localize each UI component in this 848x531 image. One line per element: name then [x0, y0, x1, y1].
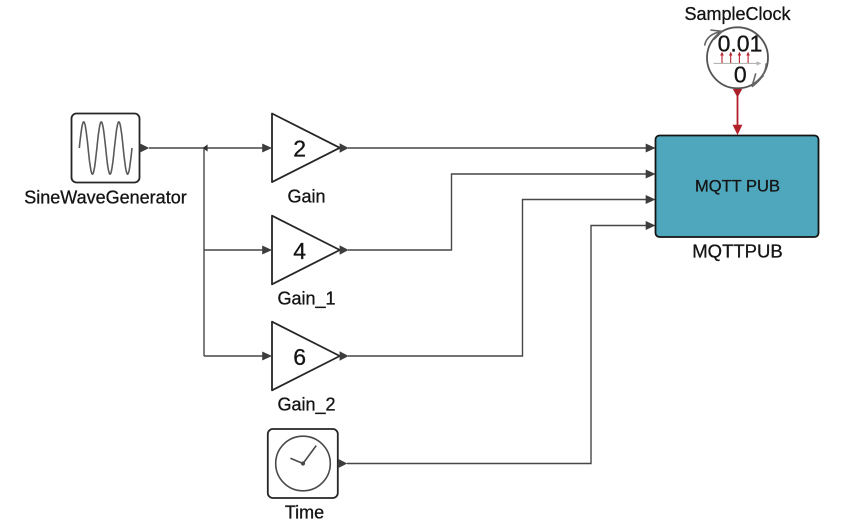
wire Gain output to MQTT PUB input 1 — [348, 147, 646, 149]
SampleClock red stems — [722, 55, 748, 63]
output port of Time — [338, 459, 347, 468]
arrowhead into MQTT PUB port 3 — [646, 195, 656, 204]
arrowhead into Gain_2 — [262, 352, 272, 361]
output port of Gain_1 — [340, 245, 349, 254]
gain Gain — [272, 114, 340, 183]
wire Gain_1 output to MQTT PUB input 2 — [348, 174, 646, 250]
SampleClock circle — [707, 27, 768, 88]
wire junction to Gain input — [204, 147, 263, 149]
wire red sample-time from SampleClock to MQTT PUB — [737, 95, 739, 126]
svg-text:MQTT PUB: MQTT PUB — [695, 178, 780, 196]
red arrow start triangle below SampleClock — [733, 89, 742, 98]
svg-text:4: 4 — [293, 238, 306, 264]
svg-text:0.01: 0.01 — [718, 31, 763, 57]
arrowhead into Gain_1 — [262, 246, 272, 255]
svg-text:SampleClock: SampleClock — [684, 4, 791, 24]
block Time (clock) — [268, 429, 338, 498]
output port of SineWaveGenerator — [140, 143, 150, 152]
node junction at branch point — [203, 144, 208, 151]
svg-text:SineWaveGenerator: SineWaveGenerator — [24, 187, 186, 207]
output port of Gain — [340, 143, 349, 152]
arrowhead into MQTT PUB port 4 — [646, 221, 656, 230]
svg-text:Time: Time — [285, 503, 324, 523]
wire vertical branch from junction down — [203, 148, 205, 356]
wire branch to Gain_1 input — [204, 249, 263, 251]
svg-text:6: 6 — [293, 344, 306, 370]
svg-text:Gain_2: Gain_2 — [277, 394, 335, 415]
svg-text:Gain: Gain — [287, 187, 325, 207]
arrowhead into Gain — [262, 144, 272, 153]
SampleClock rotation arrow top-left — [705, 30, 723, 46]
svg-text:2: 2 — [293, 136, 306, 162]
wire branch to Gain_2 input — [204, 355, 263, 357]
gain Gain_1 — [272, 216, 340, 285]
output port of Gain_2 — [340, 351, 349, 360]
wire Gain_2 output to MQTT PUB input 3 — [348, 200, 646, 357]
arrowhead into MQTT PUB port 1 — [646, 144, 656, 153]
SampleClock rotation arrow bottom-right — [752, 63, 766, 86]
block SineWaveGenerator — [72, 114, 140, 183]
red arrowhead into MQTT PUB top — [733, 125, 743, 135]
arrowhead into MQTT PUB port 2 — [646, 170, 656, 179]
wire Time output to MQTT PUB input 4 — [347, 226, 646, 464]
SampleClock stem axis — [714, 62, 758, 64]
block MQTT PUB — [656, 136, 819, 238]
svg-text:Gain_1: Gain_1 — [277, 288, 335, 309]
wire from SineWaveGenerator output to junction — [149, 147, 204, 149]
svg-text:MQTTPUB: MQTTPUB — [692, 241, 782, 262]
gain Gain_2 — [272, 322, 340, 391]
svg-text:0: 0 — [734, 62, 747, 88]
